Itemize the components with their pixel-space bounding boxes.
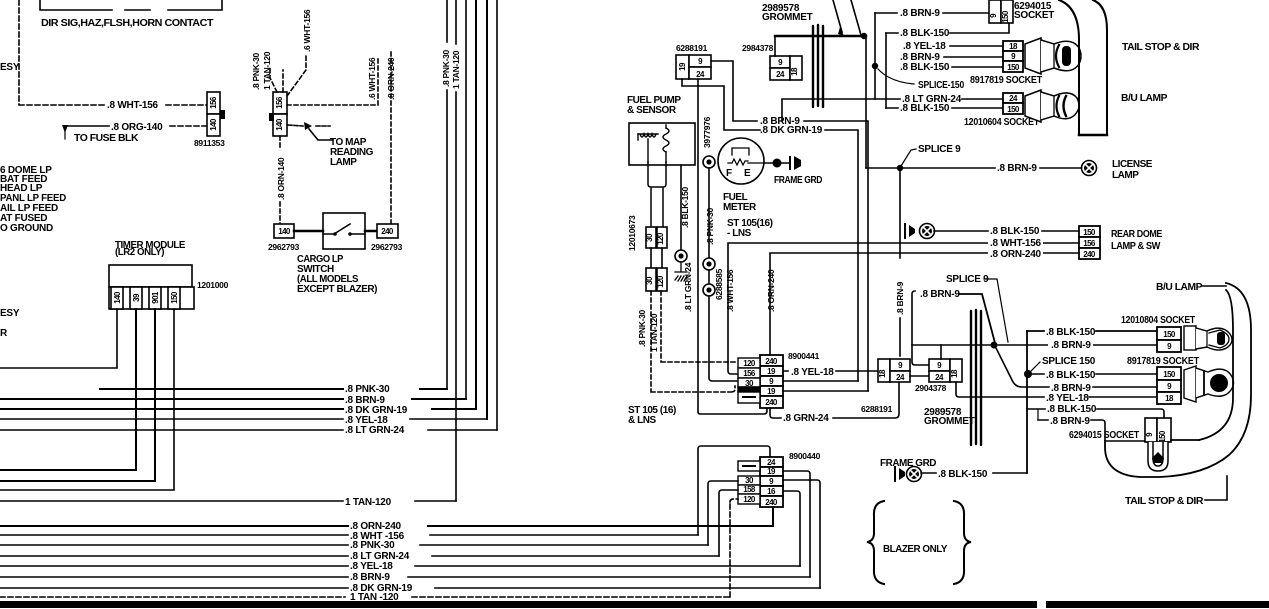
dashed wire org-140 to connector [170, 125, 207, 127]
timer wire 901 [0, 309, 155, 481]
svg-text:240: 240 [765, 357, 778, 366]
wire brn-9 branch to sockets [912, 344, 1159, 346]
svg-text:O GROUND: O GROUND [0, 223, 53, 234]
svg-text:.8 PNK-30: .8 PNK-30 [350, 540, 395, 551]
svg-text:8900441: 8900441 [788, 351, 820, 361]
wire hook grommet to connector [774, 36, 776, 56]
splice 9 dot (lower) [991, 342, 998, 349]
svg-text:12010804 SOCKET: 12010804 SOCKET [1121, 315, 1195, 326]
wire .8 brn-9 [944, 56, 1003, 58]
svg-text:24: 24 [935, 373, 944, 382]
cargo lp switch box [294, 213, 377, 249]
blk-150 link vertical [885, 33, 887, 108]
bundle2 wire .8 orn-240 [0, 525, 773, 527]
svg-text:19: 19 [767, 367, 776, 376]
wire 16 row to yel-18 [783, 491, 800, 566]
svg-text:.8 YEL-18: .8 YEL-18 [791, 367, 834, 378]
splice ring 3977976 [703, 156, 715, 168]
wires from pump to connector [648, 162, 666, 227]
tail lamp bulb (right) [1184, 366, 1234, 402]
terminal 150 [168, 287, 180, 309]
wire lt grn-24 to 158 [719, 490, 738, 556]
svg-text:120: 120 [743, 359, 756, 368]
svg-text:LAMP: LAMP [1112, 170, 1139, 181]
svg-text:.8 PNK-30: .8 PNK-30 [637, 309, 647, 347]
svg-text:150: 150 [1163, 370, 1176, 379]
svg-text:.8 BLK-150: .8 BLK-150 [900, 28, 950, 39]
socket 12010804 (150/9) [1157, 327, 1181, 352]
timer wire 150 [0, 309, 174, 490]
courtesy dashed wire from left [19, 0, 105, 105]
wire to frame ground [764, 162, 790, 164]
splice-150 dot [872, 63, 878, 69]
wire .8 yel-18 [950, 45, 1003, 47]
bundle2 wire .8 wht-156 [0, 534, 698, 536]
vertical from grommet junction [865, 36, 867, 168]
label FUEL PUMP & SENSOR [627, 95, 681, 116]
svg-text:.8 BLK-150: .8 BLK-150 [1046, 327, 1096, 338]
svg-text:18: 18 [950, 369, 959, 378]
socket 6294015 (top) [989, 0, 1013, 23]
svg-text:.8 BRN-9: .8 BRN-9 [350, 572, 390, 583]
connector pair 2 (30/120) [645, 268, 667, 291]
blazer only braces [867, 501, 971, 584]
socket 8917819 (150/9/18) [1157, 367, 1181, 404]
connector 8900440 [760, 457, 783, 507]
svg-text:.8 WHT-156: .8 WHT-156 [725, 269, 735, 312]
svg-text:3977976: 3977976 [702, 116, 712, 148]
svg-text:.6 WHT-156: .6 WHT-156 [367, 57, 377, 100]
svg-text:1 TAN-120: 1 TAN-120 [649, 313, 659, 352]
svg-text:& SENSOR: & SENSOR [627, 105, 677, 116]
svg-text:19: 19 [767, 467, 776, 476]
six vertical feed wires from top [447, 0, 497, 501]
svg-text:6294015 SOCKET: 6294015 SOCKET [1069, 430, 1139, 441]
svg-text:2904378: 2904378 [915, 383, 947, 393]
svg-text:158: 158 [743, 485, 756, 494]
svg-text:156: 156 [209, 96, 218, 109]
splice ring 6288585 b [703, 284, 715, 296]
svg-text:.8 BLK-150: .8 BLK-150 [900, 103, 950, 114]
dashed tan-120 drop [661, 291, 738, 362]
svg-text:19: 19 [767, 387, 776, 396]
svg-text:12010604 SOCKET: 12010604 SOCKET [964, 117, 1039, 128]
label FUEL METER [723, 192, 757, 213]
svg-text:8911353: 8911353 [194, 138, 225, 148]
splice 9 dot [897, 165, 903, 171]
bundle2 wire .8 pnk-30 [0, 544, 708, 546]
svg-text:LAMP & SW: LAMP & SW [1111, 241, 1161, 252]
svg-text:8917819 SOCKET: 8917819 SOCKET [1127, 356, 1199, 367]
svg-text:150: 150 [1083, 228, 1096, 237]
wire dk grn-19 vertical [475, 0, 477, 409]
bundle1 wire .8 dk grn-19 [0, 408, 476, 410]
wire to fuse blk [64, 125, 109, 127]
wire brn-9 to grommet [959, 294, 995, 343]
svg-text:120: 120 [743, 495, 756, 504]
wire grn-24 out [770, 382, 899, 418]
svg-text:8917819 SOCKET: 8917819 SOCKET [970, 75, 1042, 86]
wire 9 to brn-9 [711, 61, 757, 121]
svg-text:39: 39 [132, 293, 141, 302]
chassis ground [675, 262, 687, 281]
svg-text:120: 120 [656, 275, 665, 288]
svg-text:1 TAN-120: 1 TAN-120 [451, 50, 461, 89]
harness band inner [1199, 290, 1233, 440]
svg-text:24: 24 [1009, 94, 1018, 103]
dashed wire right of connector to wht-156 drop [287, 57, 378, 105]
svg-text:.8 ORN-140: .8 ORN-140 [276, 157, 286, 200]
svg-text:120: 120 [656, 232, 665, 245]
svg-text:150: 150 [1001, 10, 1010, 23]
grommet top bars [813, 25, 823, 107]
svg-text:.8 YEL-18: .8 YEL-18 [350, 561, 393, 572]
svg-text:.8 ORN-240: .8 ORN-240 [766, 269, 776, 312]
wire pnk-30 to 30 [708, 481, 738, 545]
svg-text:LAMP: LAMP [330, 157, 357, 168]
svg-text:.8 PNK-30: .8 PNK-30 [251, 52, 261, 90]
label .8 WHT-156 [988, 237, 1043, 247]
pointer TO MAP READING LAMP [288, 125, 330, 126]
svg-text:.8 DK GRN-19: .8 DK GRN-19 [760, 125, 823, 136]
svg-text:150: 150 [1158, 430, 1167, 443]
ground + lamp symbol [904, 224, 906, 238]
wire .8 blk-150 frame grd [921, 472, 1027, 474]
harness band top right [1059, 0, 1107, 135]
wire dk grn-19 right and down [825, 130, 858, 381]
svg-text:150: 150 [170, 291, 179, 304]
svg-text:- LNS: - LNS [727, 228, 752, 239]
timer wire 140 [0, 309, 117, 368]
svg-text:16: 16 [767, 487, 776, 496]
wire .8 blk-150 to socket [886, 23, 1009, 33]
svg-text:SPLICE 9: SPLICE 9 [918, 144, 961, 155]
splice 681 [675, 250, 687, 262]
wire yel-18 out [783, 370, 878, 372]
svg-text:BLAZER ONLY: BLAZER ONLY [883, 544, 948, 555]
svg-text:.8 BLK-150: .8 BLK-150 [990, 226, 1040, 237]
timer wire 39 [0, 309, 136, 470]
connector 6288191 (top, fuel pump) [676, 55, 711, 79]
svg-text:.8 BRN-9: .8 BRN-9 [1051, 340, 1091, 351]
arrow to fuse [62, 125, 68, 133]
tail pointer [1205, 476, 1227, 500]
bundle1 labels [345, 384, 408, 436]
svg-text:B/U LAMP: B/U LAMP [1121, 93, 1168, 104]
wire pnk-30 to 30 box [709, 296, 738, 381]
label ST 105 (16) & LNS [628, 405, 676, 426]
svg-text:.8 YEL-18: .8 YEL-18 [903, 41, 946, 52]
wire [708, 270, 710, 284]
svg-text:12010673: 12010673 [627, 215, 637, 251]
svg-text:F: F [726, 168, 732, 179]
label TIMER MODULE (LR2 ONLY) [115, 240, 186, 258]
rear dome connector (150/156/240) [1079, 226, 1100, 259]
left cut-off feed labels [0, 165, 66, 234]
blk-150 collector vertical [1026, 331, 1028, 473]
svg-text:2984378: 2984378 [742, 43, 774, 53]
svg-text:18: 18 [790, 67, 799, 76]
wire .8 brn-9 license [866, 167, 1083, 169]
svg-text:30: 30 [745, 379, 754, 388]
wire orn-240 to 240 [772, 507, 774, 526]
svg-text:18: 18 [878, 369, 887, 378]
wire lt grn-24 vertical [496, 0, 498, 430]
connector 12010673 pair (30/120) [645, 227, 667, 248]
svg-text:LICENSE: LICENSE [1112, 159, 1153, 170]
wire orn-240 [770, 253, 1079, 355]
svg-text:.6 WHT-156: .6 WHT-156 [302, 9, 312, 52]
wire 19 row out to brn-9 run [783, 390, 868, 392]
wire 24 down (lt grn-24 run) [698, 79, 767, 414]
svg-text:24: 24 [696, 70, 705, 79]
svg-text:6288191: 6288191 [676, 43, 708, 53]
fuel pump & sensor box [629, 123, 695, 165]
svg-text:FRAME GRD: FRAME GRD [880, 458, 936, 469]
svg-text:150: 150 [1163, 330, 1176, 339]
splice-150 pointer [878, 69, 914, 84]
grommet bars (lower) [971, 310, 981, 445]
terminal 901 [149, 287, 161, 309]
junction dot [861, 33, 867, 39]
wire 19 row to brn-9 [783, 471, 810, 577]
svg-text:GROMMET: GROMMET [762, 12, 813, 23]
wire pnk-30 down [708, 168, 710, 258]
label 6294015 SOCKET [1014, 1, 1054, 21]
label .8 ORN-240 [988, 248, 1043, 258]
svg-text:140: 140 [275, 118, 284, 131]
svg-text:156: 156 [1083, 239, 1096, 248]
wire blk-150 to ground [680, 165, 682, 249]
label ST 105(16) - LNS [727, 218, 773, 239]
svg-text:.8 PNK-30: .8 PNK-30 [705, 207, 715, 245]
wire stub 2904378 9 to brn-9 line [940, 345, 942, 359]
ground symbol [894, 467, 896, 481]
svg-text:140: 140 [278, 227, 291, 236]
svg-text:E: E [744, 168, 751, 179]
svg-text:140: 140 [113, 291, 122, 304]
svg-text:6288585: 6288585 [714, 268, 724, 300]
wire 9 row out [783, 380, 858, 382]
wire 1 tan-120 [0, 500, 456, 502]
bundle2 wire .8 dk grn-19 [0, 587, 820, 589]
svg-text:.8 BRN-9: .8 BRN-9 [1050, 416, 1090, 427]
wire .8 brn-9 top [875, 12, 989, 14]
b/u lamp bulb (right) [1184, 326, 1232, 350]
b/u pointer [1202, 285, 1226, 287]
pump motor coil [638, 134, 658, 137]
svg-text:DIR SIG,HAZ,FLSH,HORN CONTACT: DIR SIG,HAZ,FLSH,HORN CONTACT [41, 18, 213, 29]
svg-text:1 TAN-120: 1 TAN-120 [345, 497, 392, 508]
splice 9 pointer [901, 149, 916, 166]
svg-text:.8 WHT-156: .8 WHT-156 [990, 238, 1042, 249]
svg-text:& LNS: & LNS [628, 415, 657, 426]
svg-text:EXCEPT BLAZER): EXCEPT BLAZER) [297, 284, 377, 295]
wires between connector pairs [651, 248, 662, 268]
terminal 39 [130, 287, 142, 309]
wire lt grn-24 through grommet [782, 99, 1003, 121]
svg-text:18: 18 [1165, 394, 1174, 403]
svg-text:240: 240 [1083, 250, 1096, 259]
splice ring 6288585 a [703, 258, 715, 270]
wire 9 row to dk grn-19 [783, 480, 820, 588]
bundle2 labels [350, 521, 413, 603]
dashed orn-140 drop below connector [279, 136, 281, 224]
svg-text:.8 BLK-150: .8 BLK-150 [900, 62, 950, 73]
thick harness wire through grommet [775, 35, 866, 37]
svg-text:REAR DOME: REAR DOME [1111, 229, 1163, 240]
svg-text:(LR2 ONLY): (LR2 ONLY) [115, 247, 164, 258]
svg-text:8900440: 8900440 [789, 451, 821, 461]
svg-text:TAIL STOP & DIR: TAIL STOP & DIR [1122, 42, 1200, 53]
wire brn-9 from 2904378 up [912, 291, 929, 365]
svg-text:ESY: ESY [0, 62, 20, 73]
wire .8 brn-9 (to 12010804) [1048, 339, 1093, 349]
label CARGO LP SWITCH [297, 254, 377, 295]
svg-text:24: 24 [767, 458, 776, 467]
connector 2984378 (top) [770, 56, 802, 80]
svg-text:R: R [0, 328, 8, 339]
wire brn-9 vertical [465, 0, 467, 399]
bundle1 wire .8 pnk-30 [100, 388, 447, 390]
terminal 140 [111, 287, 123, 309]
b/u lamp bulb (top) [1025, 90, 1079, 122]
connector 8900441 [760, 355, 783, 408]
connector 2962793 area : 156/140 block (middle) [269, 92, 287, 136]
svg-text:.8 LT GRN-24: .8 LT GRN-24 [683, 262, 693, 312]
svg-text:.8 BLK-150: .8 BLK-150 [938, 469, 988, 480]
svg-text:.8 BLK-150: .8 BLK-150 [1047, 404, 1097, 415]
lamp socket U shell [1148, 442, 1168, 471]
socket 6294015 lower (9/150) [1145, 418, 1171, 443]
label 2989578 GROMMET (lower) [924, 407, 975, 427]
connector 2904378 [929, 359, 962, 382]
svg-text:1201000: 1201000 [197, 280, 229, 290]
svg-text:24: 24 [776, 70, 785, 79]
connector 2962793 left (140) [274, 224, 294, 238]
splice 150 pointer + dot [1031, 362, 1040, 371]
fuel meter circle [718, 138, 764, 184]
wire .8 blk-150 (to 6294015) [1027, 409, 1164, 419]
svg-text:SPLICE-150: SPLICE-150 [918, 80, 965, 91]
label 2989578 GROMMET (top) [762, 3, 813, 23]
svg-text:.8 BRN-9: .8 BRN-9 [920, 289, 960, 300]
wire tan-120 dashed to 120 [730, 499, 738, 597]
svg-text:.8 BRN-9: .8 BRN-9 [900, 8, 940, 19]
wire .8 blk-150 (to 8917819) [1027, 373, 1159, 375]
wire .8 blk-150 [952, 66, 1003, 68]
bundle1 wire .8 brn-9 [0, 398, 466, 400]
svg-text:240: 240 [765, 498, 778, 507]
svg-text:240: 240 [765, 398, 778, 407]
connector 12010604 socket (24/150) [1003, 93, 1023, 114]
dashed pnk-30 drop [651, 291, 735, 392]
svg-text:.8 ORN-240: .8 ORN-240 [990, 249, 1042, 260]
svg-text:19: 19 [678, 62, 687, 71]
dashed pnk-30/tan-120 stubs above connector [270, 66, 283, 92]
svg-text:ESY: ESY [0, 308, 20, 319]
svg-text:SPLICE 150: SPLICE 150 [1042, 356, 1096, 367]
wire .8 blk-150 top [1027, 330, 1159, 332]
svg-text:.8 BLK-150: .8 BLK-150 [1046, 370, 1096, 381]
svg-text:6288191: 6288191 [861, 404, 893, 414]
svg-text:B/U LAMP: B/U LAMP [1156, 282, 1203, 293]
svg-text:156: 156 [275, 96, 284, 109]
svg-text:.8 PNK-30: .8 PNK-30 [345, 384, 390, 395]
bundle1 wire .8 lt grn-24 [0, 429, 497, 431]
brn-9 trunk vertical [874, 13, 876, 99]
brn-9 trunk down to mid connector [899, 168, 901, 356]
svg-text:SPLICE 9: SPLICE 9 [946, 274, 989, 285]
bundle2 wire .8 brn-9 [0, 576, 810, 578]
svg-text:140: 140 [209, 118, 218, 131]
svg-text:.8 YEL-18: .8 YEL-18 [1046, 393, 1089, 404]
svg-text:.8 BRN-9: .8 BRN-9 [997, 163, 1037, 174]
wire yel-18 vertical [486, 0, 488, 419]
svg-text:30: 30 [645, 233, 654, 242]
harness racetrack bottom + band outer [1105, 283, 1251, 477]
svg-text:2962793: 2962793 [268, 242, 300, 252]
svg-text:150: 150 [1007, 63, 1020, 72]
license lamp symbol [1082, 161, 1097, 176]
frame ground symbol [789, 157, 791, 169]
wire wht-156 [728, 243, 1079, 374]
connector 8917819 socket (18/9/150) [1003, 41, 1023, 72]
wire .8 blk-150 [886, 107, 1003, 109]
wire brn-9 right and down [804, 121, 868, 391]
dashed orn-240 drop [390, 52, 392, 224]
svg-text:240: 240 [381, 227, 394, 236]
timer module box [109, 265, 194, 309]
svg-text:.8 ORG-140: .8 ORG-140 [111, 122, 163, 133]
svg-text:.8 BRN-9: .8 BRN-9 [895, 281, 905, 315]
bundle2 wire .8 lt grn-24 [0, 555, 719, 557]
svg-text:.8 BLK-150: .8 BLK-150 [680, 186, 690, 228]
label LICENSE LAMP [1112, 159, 1153, 181]
bundle2 wire .8 yel-18 [0, 565, 800, 567]
svg-text:156: 156 [743, 369, 756, 378]
wire 19 to dk grn-19 [682, 79, 760, 130]
svg-text:150: 150 [1007, 105, 1020, 114]
diagonal feeds into grommet [833, 0, 861, 35]
bottom black bar [0, 601, 1037, 608]
svg-text:30: 30 [645, 276, 654, 285]
splice dot [773, 159, 782, 168]
svg-text:30: 30 [745, 476, 754, 485]
wire .8 brn-9 (to 6294015) [1038, 420, 1145, 441]
connector 6288191 (mid) [878, 359, 910, 382]
svg-text:.8 WHT-156: .8 WHT-156 [107, 100, 159, 111]
svg-text:TO FUSE BLK: TO FUSE BLK [74, 133, 139, 144]
svg-text:METER: METER [723, 202, 757, 213]
svg-text:.8 LT GRN-24: .8 LT GRN-24 [345, 425, 405, 436]
svg-text:SOCKET: SOCKET [1014, 10, 1054, 21]
wire 1 tan-120 vertical [455, 0, 457, 501]
wire yel-18 from 18 box across grommet [956, 382, 1159, 397]
splice 9 pointer diagonal [984, 279, 1008, 342]
svg-text:.8 ORN-240: .8 ORN-240 [386, 57, 396, 100]
bundle2 wire 1 tan-120 dashed [0, 596, 730, 598]
svg-text:.8 PNK-30: .8 PNK-30 [441, 49, 451, 87]
tail stop lamp bulb (top) [1025, 38, 1081, 74]
label REAR DOME LAMP & SW [1111, 229, 1163, 252]
sender coil [663, 128, 669, 152]
wire .8 pnk-30 vertical [446, 0, 448, 389]
connector 8911353 (156/140) [207, 92, 225, 136]
connector 2962793 right (240) [377, 224, 398, 238]
dashed wht-156 diagonal up [287, 55, 306, 96]
svg-text:FRAME GRD: FRAME GRD [774, 175, 822, 186]
